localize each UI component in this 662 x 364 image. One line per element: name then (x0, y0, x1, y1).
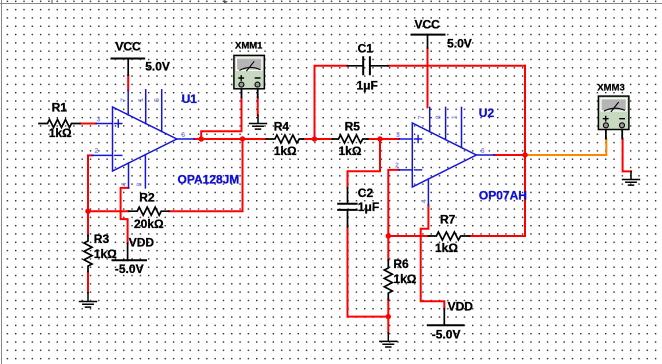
op-amp U2 top pin8 (445, 107, 447, 139)
svg-text:20kΩ: 20kΩ (134, 217, 164, 231)
svg-text:1kΩ: 1kΩ (274, 144, 297, 158)
wire R4 to R5 (303, 138, 332, 140)
resistor R5 (332, 135, 367, 143)
wire VCC2 stem red (427, 48, 429, 107)
resistor R1 (39, 120, 80, 128)
junction node output U1 / R2 (240, 136, 245, 141)
svg-text:C2: C2 (358, 186, 374, 200)
svg-text:R7: R7 (440, 213, 456, 227)
capacitor C2 (347, 188, 349, 227)
svg-text:1kΩ: 1kΩ (435, 241, 458, 255)
svg-text:2: 2 (95, 148, 99, 155)
op-amp U1 output lead (177, 138, 194, 140)
op-amp U2 top pin1 (461, 107, 463, 147)
svg-text:1: 1 (452, 115, 459, 119)
op-amp U2 top pin7 (429, 107, 431, 131)
wire R7 right to output junction (469, 235, 525, 237)
junction node R6/R7/pin2 (386, 233, 391, 238)
wire R3 bottom to ground (87, 272, 89, 293)
svg-text:VCC: VCC (115, 40, 141, 54)
ground under R6 (380, 333, 397, 347)
wire C1 left branch (315, 66, 348, 139)
svg-text:R1: R1 (52, 101, 68, 115)
svg-text:R3: R3 (94, 232, 110, 246)
svg-text:R5: R5 (345, 120, 361, 134)
svg-text:R6: R6 (393, 257, 409, 271)
XMM3 terminal stubs (606, 128, 622, 139)
multimeter XMM3 (598, 96, 629, 129)
svg-text:1μF: 1μF (358, 200, 379, 214)
svg-text:5.0V: 5.0V (447, 37, 472, 51)
sheet border top (0, 3, 662, 5)
svg-text:R4: R4 (274, 120, 290, 134)
wire VCC1 stem red (127, 75, 129, 90)
op-amp U2 triangle (412, 123, 476, 187)
svg-text:4: 4 (121, 183, 128, 187)
op-amp U2 pin2 lead (399, 169, 412, 171)
power VCC2 symbol (412, 34, 445, 36)
svg-text:OP07AH: OP07AH (479, 189, 527, 203)
junction node R4/R5/C1 (312, 136, 317, 141)
wire U1 output row (194, 138, 266, 140)
wire orange output to XMM3 (525, 139, 606, 155)
svg-text:3: 3 (97, 116, 101, 123)
multimeter XMM1 (234, 55, 265, 88)
op-amp U1 plus sign (115, 120, 122, 127)
svg-text:5: 5 (154, 98, 161, 102)
svg-text:OPA128JM: OPA128JM (178, 173, 240, 187)
svg-text:6: 6 (181, 132, 185, 139)
op-amp U1 pin3 lead (96, 123, 113, 125)
op-amp U1 top pin1 (145, 90, 147, 124)
wire C1 right to top rail (388, 65, 525, 67)
wire U2 pin2 feedback down (388, 170, 399, 260)
wire U1 pin2 to junction to R3 (88, 155, 92, 235)
ground under XMM3 (623, 171, 640, 185)
svg-text:1kΩ: 1kΩ (49, 126, 72, 140)
op-amp U2 bottom pin4 (427, 179, 429, 205)
svg-text:7: 7 (121, 98, 128, 102)
capacitor C1 (347, 65, 388, 67)
svg-text:3: 3 (396, 132, 400, 139)
op-amp U2 output lead (476, 154, 494, 156)
svg-text:U1: U1 (182, 92, 198, 106)
sheet border left (1, 0, 3, 364)
op-amp U1 pin2 lead (92, 154, 112, 156)
resistor R2 (129, 207, 169, 215)
svg-text:1: 1 (138, 98, 145, 102)
resistor R6 (384, 260, 392, 300)
wire to XMM1 plus (201, 97, 241, 139)
wire XMM1 minus to ground (257, 97, 259, 115)
XMM1 terminal stubs (242, 87, 258, 97)
svg-text:1μF: 1μF (357, 78, 378, 92)
svg-text:-5.0V: -5.0V (115, 262, 144, 276)
svg-text:8: 8 (436, 115, 443, 119)
wire node to R7 (388, 235, 428, 237)
svg-text:5.0V: 5.0V (145, 60, 170, 74)
svg-text:1kΩ: 1kΩ (94, 247, 117, 261)
svg-text:VDD: VDD (448, 299, 474, 313)
svg-text:R2: R2 (139, 191, 155, 205)
svg-text:6: 6 (481, 148, 485, 155)
wire R2 right up to output row (169, 139, 243, 211)
power VDD1 symbol (127, 243, 129, 260)
svg-text:U2: U2 (479, 106, 495, 120)
wire R1 to U1 pin3 (80, 123, 96, 125)
svg-text:XMM1: XMM1 (235, 41, 263, 52)
wire U2 output (494, 154, 525, 156)
wire R5 to U2 pin3 (368, 138, 399, 140)
op-amp U1 top pin5 (161, 90, 163, 132)
wire top rail down through output junction (524, 66, 526, 236)
wire U2 pin4 to VDD2 (421, 205, 445, 309)
wire R6 bottom to ground (387, 300, 389, 333)
op-amp U1 triangle (113, 107, 177, 171)
svg-text:VDD: VDD (129, 235, 155, 249)
svg-text:1kΩ: 1kΩ (339, 144, 362, 158)
junction node R5/U2 pin3/C2 (377, 136, 382, 141)
op-amp U1 top pin7 (127, 90, 129, 115)
svg-text:-5.0V: -5.0V (432, 328, 461, 342)
wire C2 bottom to R6 foot (348, 227, 389, 317)
resistor R4 (266, 135, 303, 143)
op-amp U1 bottom pin8 (144, 155, 146, 188)
junction node U1 inverting (85, 209, 90, 214)
op-amp U2 pin3 lead (399, 138, 412, 140)
svg-text:XMM3: XMM3 (597, 82, 624, 93)
svg-text:4: 4 (421, 199, 428, 203)
wire XMM3 minus to ground (623, 139, 631, 172)
wire U1 pin4 to VDD (121, 188, 129, 243)
svg-text:1kΩ: 1kΩ (393, 272, 416, 286)
junction node R6 foot/C2 (386, 314, 391, 319)
wire feedback row to R2 (88, 210, 129, 212)
op-amp U1 minus sign (115, 154, 122, 156)
svg-text:C1: C1 (358, 42, 374, 56)
ground under R3 (80, 293, 97, 308)
junction node output U1 / XMM1 (199, 136, 204, 141)
svg-text:2: 2 (395, 163, 399, 170)
op-amp U1 bottom pin4 (128, 163, 130, 188)
op-amp U2 plus sign (415, 136, 422, 143)
op-amp U2 minus sign (415, 169, 422, 171)
ruler marker (224, 0, 228, 4)
resistor R3 (84, 235, 92, 271)
ground under XMM1 (250, 115, 267, 129)
svg-text:8: 8 (136, 183, 143, 187)
wire C2 top branch (348, 139, 381, 188)
resistor R7 (429, 232, 470, 240)
power VDD2 symbol (443, 309, 445, 326)
svg-text:VCC: VCC (415, 18, 441, 32)
power VCC1 symbol (112, 58, 145, 60)
junction node U2 output (522, 152, 527, 157)
ruler tick (51, 0, 53, 4)
svg-text:7: 7 (418, 115, 425, 119)
